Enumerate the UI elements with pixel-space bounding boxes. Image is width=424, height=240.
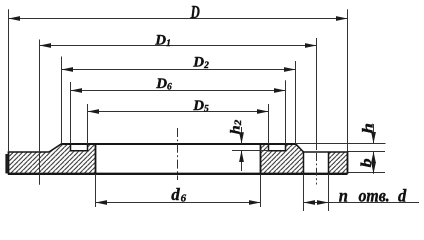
svg-text:D5: D5 <box>192 98 209 115</box>
right groove wall inner <box>268 144 270 151</box>
svg-text:h2: h2 <box>229 120 244 135</box>
svg-text:h: h <box>359 123 376 133</box>
dimension D1 line <box>40 45 317 47</box>
svg-text:d: d <box>398 186 407 206</box>
h extension line (face level, to the right) <box>296 143 386 145</box>
right plate top across bolt hole <box>304 151 348 153</box>
extension line D5 right <box>268 104 270 144</box>
right chamfer <box>296 144 304 152</box>
bolt hole left wall <box>303 152 305 174</box>
right groove wall outer <box>285 144 287 151</box>
dimension bolt hole d line with shelf <box>304 202 420 204</box>
left groove wall outer <box>70 144 72 151</box>
bore left wall <box>95 144 97 174</box>
extension line D1 left (through flange) <box>39 40 41 185</box>
extension line D2 left <box>61 57 63 144</box>
dimension d6 line <box>96 202 261 204</box>
svg-text:D: D <box>190 3 200 23</box>
left groove bottom <box>70 150 88 152</box>
plate top extension right <box>348 151 386 153</box>
svg-text:отв.: отв. <box>359 185 390 205</box>
extension below: bore left <box>95 174 97 207</box>
extension line D right <box>347 9 349 151</box>
svg-text:n: n <box>339 186 348 206</box>
flange outline: left plate top <box>9 151 50 153</box>
dimension D6 line <box>71 90 286 92</box>
svg-text:d6: d6 <box>171 185 186 205</box>
dimension h (vertical, right) <box>373 124 375 144</box>
bolt hole centerline upper (D1 right extension) <box>316 38 318 150</box>
bore right wall <box>260 144 262 174</box>
bolt hole centerline dash-dot in hole <box>316 153 318 185</box>
extension line D left <box>8 9 10 152</box>
svg-text:D2: D2 <box>192 55 209 72</box>
extension below: bore right <box>260 174 262 207</box>
bottom edge extension right <box>348 172 386 174</box>
svg-text:D1: D1 <box>154 33 171 50</box>
hatched cut area: right of bolt hole <box>329 152 348 174</box>
extension below: hole right <box>328 174 330 211</box>
left groove wall inner <box>87 144 89 151</box>
dimension h2 (vertical, in bore) <box>241 127 243 171</box>
hatched cut area: right flange section (bore to bolt hole) <box>261 144 304 174</box>
flange outline: left edge <box>8 151 10 174</box>
flange outline: bottom edge (thick) <box>8 173 348 175</box>
extension line D6 right <box>285 80 287 144</box>
flange right edge <box>347 151 349 174</box>
svg-text:D6: D6 <box>155 76 172 93</box>
flange outline: top face line across bore and grooves <box>62 143 296 145</box>
right groove bottom <box>268 150 286 152</box>
h2 groove-bottom extension line <box>232 150 269 152</box>
bolt hole right wall <box>328 152 330 174</box>
flange outline: left chamfer <box>49 144 62 152</box>
dimension b (vertical, right) <box>373 152 375 174</box>
dimension D5 line <box>88 111 269 113</box>
extension below: hole left <box>303 174 305 211</box>
extension line D2 right <box>295 61 297 144</box>
hatched cut area: left flange section <box>9 144 96 174</box>
dimension D2 line <box>62 69 296 71</box>
extension line D5 left <box>87 104 89 144</box>
dimension D line <box>9 18 348 20</box>
left edge ink blob <box>5 154 7 173</box>
svg-text:b: b <box>357 158 374 167</box>
flange axis centerline dash-dot <box>177 128 179 180</box>
extension line D6 left <box>70 82 72 144</box>
